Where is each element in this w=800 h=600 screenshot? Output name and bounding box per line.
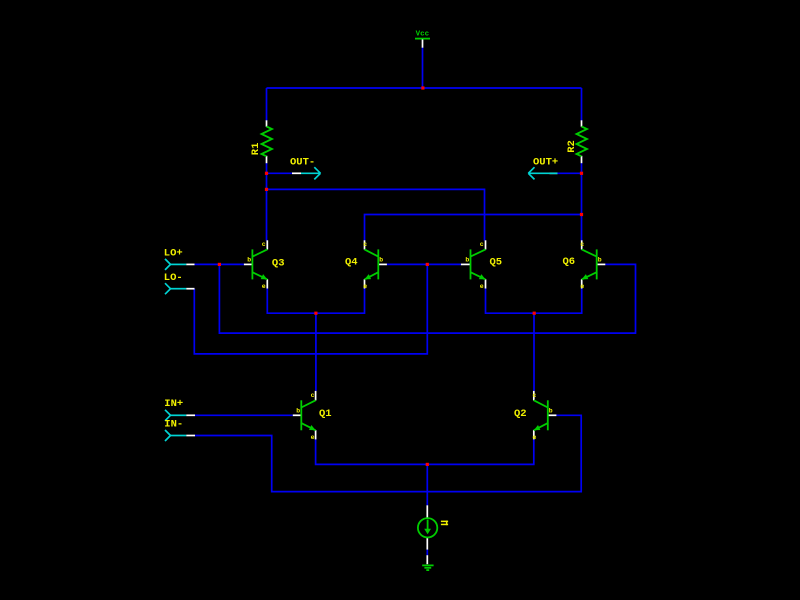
svg-text:LO+: LO+ (164, 247, 183, 259)
svg-text:e: e (262, 283, 266, 290)
svg-text:e: e (363, 283, 367, 290)
svg-text:Q2: Q2 (514, 408, 527, 420)
svg-text:e: e (533, 434, 537, 441)
svg-text:OUT-: OUT- (290, 157, 315, 169)
svg-text:c: c (262, 241, 266, 248)
svg-text:Q5: Q5 (490, 257, 503, 269)
svg-text:b: b (465, 256, 469, 263)
svg-text:R1: R1 (250, 143, 262, 156)
svg-text:e: e (311, 434, 315, 441)
svg-text:R2: R2 (566, 140, 578, 153)
svg-text:e: e (580, 283, 584, 290)
svg-text:c: c (533, 392, 537, 399)
svg-text:Q1: Q1 (319, 408, 332, 420)
svg-text:IN+: IN+ (164, 398, 183, 410)
svg-text:b: b (296, 407, 300, 414)
svg-text:Vcc: Vcc (416, 30, 430, 38)
svg-text:LO-: LO- (164, 272, 183, 284)
svg-text:Q4: Q4 (345, 257, 358, 269)
svg-text:e: e (480, 283, 484, 290)
svg-text:b: b (379, 256, 383, 263)
svg-text:c: c (311, 392, 315, 399)
svg-text:c: c (580, 241, 584, 248)
svg-text:b: b (549, 407, 553, 414)
svg-text:Q3: Q3 (272, 257, 285, 269)
svg-text:c: c (480, 241, 484, 248)
svg-text:b: b (247, 256, 251, 263)
svg-text:c: c (363, 241, 367, 248)
svg-text:OUT+: OUT+ (533, 157, 558, 169)
svg-text:IN-: IN- (164, 419, 183, 431)
svg-text:Q6: Q6 (563, 256, 576, 268)
svg-text:b: b (598, 256, 602, 263)
